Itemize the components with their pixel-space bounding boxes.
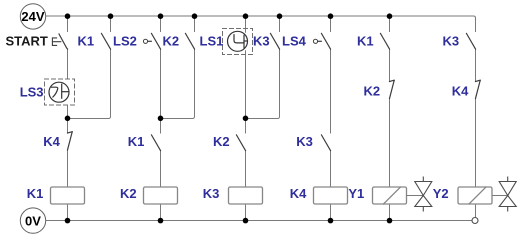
junction dot mid node A xyxy=(65,116,71,122)
junction dot bottom rail node H xyxy=(387,218,393,224)
wire column H Y1 branch xyxy=(389,16,391,221)
wire column G LS4 branch xyxy=(330,16,332,221)
wire top rail 24V xyxy=(46,16,476,20)
svg-text:K2: K2 xyxy=(364,84,381,99)
svg-text:K3: K3 xyxy=(443,33,460,48)
pushbutton START (normally open) xyxy=(6,33,68,49)
relay coil K4 xyxy=(290,186,348,204)
svg-text:LS1: LS1 xyxy=(200,33,224,48)
svg-text:K1: K1 xyxy=(78,33,95,48)
junction dot top rail node H xyxy=(387,13,393,19)
junction dot bottom rail node A xyxy=(65,218,71,224)
svg-text:START: START xyxy=(6,33,48,48)
contact K3 column I (normally open) xyxy=(443,33,476,49)
wire column A START branch xyxy=(67,16,69,221)
svg-text:K4: K4 xyxy=(290,186,307,201)
svg-text:Y1: Y1 xyxy=(348,186,364,201)
svg-text:K1: K1 xyxy=(357,33,374,48)
svg-text:K3: K3 xyxy=(296,134,313,149)
junction dot top rail node B xyxy=(108,13,114,19)
wire column I Y2 branch xyxy=(475,19,477,217)
svg-text:0V: 0V xyxy=(25,213,41,228)
junction dot top rail node F xyxy=(277,13,283,19)
svg-text:K4: K4 xyxy=(43,134,60,149)
junction dot top rail node A xyxy=(65,13,71,19)
pneumatic valve symbol at Y1 xyxy=(415,177,432,211)
contact K2 column D (normally open) xyxy=(163,33,195,49)
relay coil K3 xyxy=(203,186,263,204)
svg-text:K1: K1 xyxy=(27,186,44,201)
wire Y2 to valve symbol xyxy=(493,195,508,197)
contact K2 column H (normally closed) xyxy=(364,80,395,98)
contact K2 column E row 2 (normally open) xyxy=(213,134,246,151)
proximity sensor LS1 (dashed box with circle symbol) xyxy=(200,29,253,55)
wire column D K2 latch branch with corner to node C xyxy=(161,16,195,119)
svg-text:K3: K3 xyxy=(203,186,220,201)
24V supply terminal xyxy=(20,4,45,29)
junction dot top rail node C xyxy=(158,13,164,19)
wire column C LS2 branch xyxy=(160,16,162,221)
0V supply terminal xyxy=(20,208,45,233)
svg-text:Y2: Y2 xyxy=(433,186,449,201)
contact K4 column A (normally closed) xyxy=(43,132,72,150)
junction dot bottom rail node G xyxy=(328,218,334,224)
svg-text:LS4: LS4 xyxy=(282,33,307,48)
svg-text:LS2: LS2 xyxy=(113,33,137,48)
contact K3 column G row 2 (normally open) xyxy=(296,134,330,151)
proximity sensor LS3 (dashed box with circle symbol) xyxy=(20,79,75,105)
valve solenoid Y2 (rect with diagonal) xyxy=(433,186,492,204)
junction dot top rail node D xyxy=(192,13,198,19)
junction dot bottom rail node E xyxy=(243,218,249,224)
contact K1 column B (normally open) xyxy=(78,33,111,49)
limit switch contact LS4 (normally open, roller) xyxy=(282,33,331,49)
wire column E LS1 branch xyxy=(245,16,247,221)
relay coil K2 xyxy=(120,186,178,204)
svg-text:K2: K2 xyxy=(120,186,137,201)
svg-text:LS3: LS3 xyxy=(20,85,44,100)
wire Y1 to valve symbol xyxy=(407,195,424,197)
wire bottom rail 0V xyxy=(46,220,472,222)
svg-text:24V: 24V xyxy=(21,9,44,24)
contact K1 column H (normally open) xyxy=(357,33,390,49)
contact K1 column C row 2 (normally open) xyxy=(128,134,161,151)
junction dot mid node E xyxy=(243,116,249,122)
junction dot top rail node G xyxy=(328,13,334,19)
svg-text:K2: K2 xyxy=(213,134,230,149)
svg-text:K3: K3 xyxy=(253,33,270,48)
contact K3 column F (normally open) xyxy=(253,33,280,49)
wire column F K3 latch branch with corner to node E xyxy=(246,16,280,119)
relay coil K1 xyxy=(27,186,85,204)
junction dot bottom rail node C xyxy=(158,218,164,224)
valve solenoid Y1 (rect with diagonal) xyxy=(348,186,406,204)
svg-text:K1: K1 xyxy=(128,134,145,149)
contact K4 column I (normally closed) xyxy=(452,80,480,98)
svg-text:K2: K2 xyxy=(163,33,180,48)
junction dot top rail node E xyxy=(243,13,249,19)
limit switch contact LS2 (normally open, roller) xyxy=(113,33,161,49)
open terminal circle bottom right node I xyxy=(472,218,478,224)
pneumatic valve symbol at Y2 xyxy=(499,177,516,211)
wire column B K1 latch branch with corner to node A xyxy=(68,16,111,119)
junction dot mid node C xyxy=(158,116,164,122)
svg-text:K4: K4 xyxy=(452,84,469,99)
